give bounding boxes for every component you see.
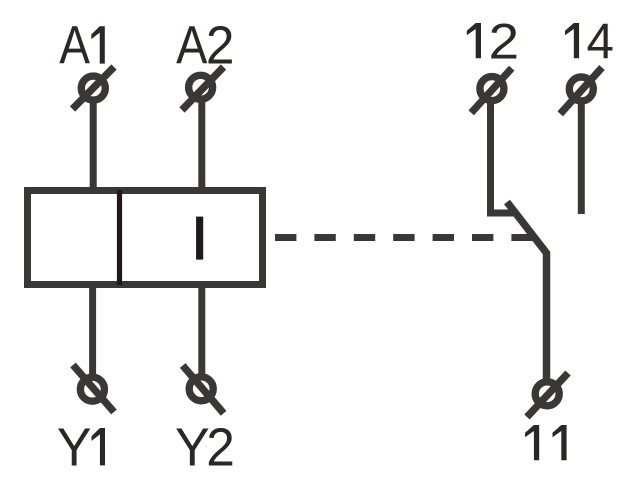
svg-text:2: 2 [206, 418, 235, 477]
svg-text:Y: Y [57, 418, 92, 477]
svg-text:A: A [176, 15, 208, 76]
svg-text:2: 2 [206, 17, 235, 76]
svg-text:A: A [59, 15, 90, 75]
svg-text:2: 2 [489, 13, 520, 69]
svg-text:Y: Y [175, 418, 210, 477]
svg-text:4: 4 [587, 13, 614, 70]
